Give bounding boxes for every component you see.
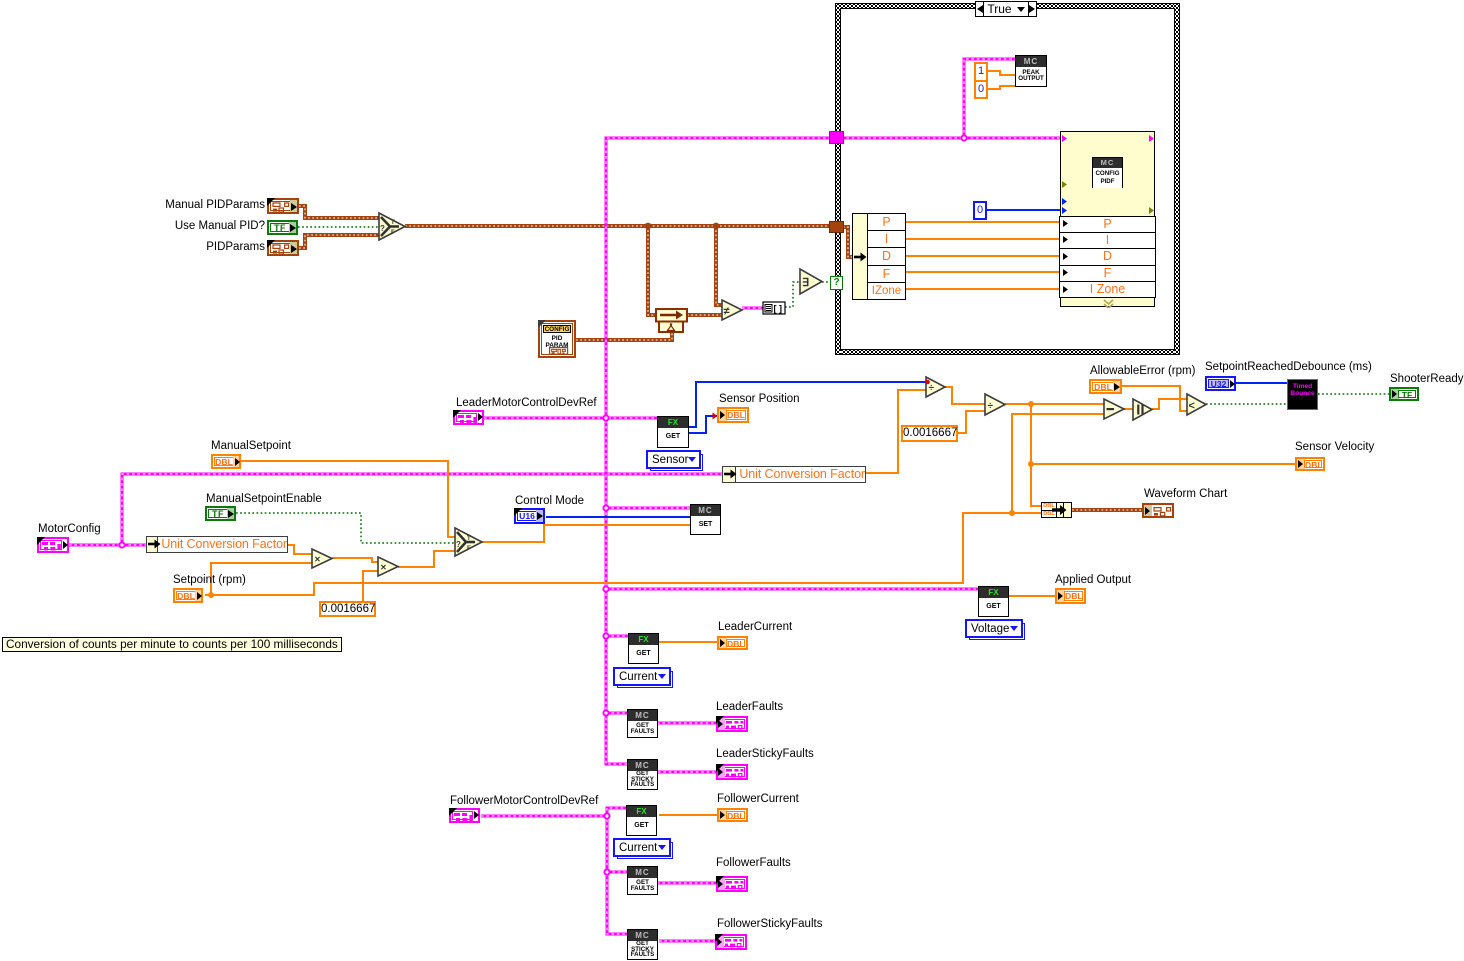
wire: AllowableError to less-than: [1122, 386, 1187, 411]
svg-text:≠: ≠: [724, 306, 730, 318]
wire: 0.0016667 const1 to multiply2: [363, 571, 378, 601]
wire: Follower GET FAULTS output: [657, 882, 717, 885]
wire: velocity down to bundle: [1031, 404, 1042, 506]
refnum terminal FollowerMotorControlDevRef: [449, 808, 480, 823]
multiply node x1: [312, 549, 332, 568]
wire: Leader GET FAULTS output to LeaderFaults: [657, 722, 717, 725]
bundle node for waveform chart: [1041, 502, 1072, 518]
wire: or-array output to case selector: [822, 281, 831, 283]
control terminal AllowableError DBL: [1089, 379, 1122, 394]
indicator FollowerFaults pink cluster: [716, 876, 748, 892]
blue constant 0: [973, 201, 987, 220]
label MotorConfig: [38, 523, 101, 535]
wire: LeaderCurrent FX GET output: [657, 641, 717, 643]
Leader MC GET FAULTS node: [627, 709, 658, 738]
Unit Conversion Factor box 1: [146, 536, 288, 553]
or-array-elements node: [800, 269, 822, 294]
divide node 1: [926, 377, 945, 397]
wire: divide2 output to subtract: [1005, 403, 1104, 405]
indicator LeaderFaults pink cluster: [716, 716, 748, 732]
red coercion dot at divide1: [925, 380, 930, 385]
Applied Output FX GET node: [978, 586, 1009, 617]
row input arrows: [1062, 216, 1070, 306]
indicator ShooterReady TF: [1389, 387, 1419, 401]
label ManualSetpoint: [211, 440, 291, 452]
indicator Sensor Position DBL: [717, 407, 749, 423]
indicator Applied Output DBL: [1055, 588, 1086, 604]
wire: Sensor FX GET to Sensor Position indicator: [689, 416, 717, 433]
svg-text:?: ?: [380, 224, 385, 233]
svg-text:[ ]: [ ]: [774, 304, 783, 314]
label Setpoint (rpm): [173, 574, 246, 586]
junction dots on cluster wire: [645, 223, 652, 230]
numeric constant 0.0016667 #2: [901, 425, 958, 442]
control terminal PIDParams: [267, 240, 299, 256]
wire: multiply2 output to select2 bottom: [398, 551, 455, 567]
control terminal Use Manual PID? (TF): [267, 220, 298, 235]
wire: Timed Bounce output to ShooterReady: [1318, 393, 1389, 395]
indicator Waveform Chart: [1142, 503, 1174, 518]
Follower MC GET FAULTS node: [627, 866, 658, 895]
wire: main leader ref vertical trunk: [606, 138, 831, 764]
wire: Unit Conversion Factor 1 output to multiply1: [288, 545, 312, 554]
label LeaderMotorControlDevRef: [456, 397, 597, 409]
multiply node x2: [378, 557, 398, 576]
label FollowerFaults: [716, 857, 791, 869]
CONFIG PIDF big node in case: [1060, 131, 1155, 307]
feedback node: [656, 309, 687, 332]
MC PEAK OUTPUT node in case: [1015, 55, 1047, 87]
wire: case tunnel to unbundle: [843, 227, 853, 257]
wire: bundle to Waveform Chart: [1072, 508, 1142, 512]
Unit Conversion Factor box 2: [722, 466, 866, 483]
control terminal SetpointReachedDebounce U32: [1205, 376, 1236, 391]
control terminal Manual PIDParams: [267, 198, 299, 214]
indicator FollowerStickyFaults pink cluster: [715, 934, 747, 950]
control terminal ManualSetpointEnable TF: [205, 506, 236, 521]
wire: Unit Conversion Factor 2 output up to divide1: [866, 390, 926, 473]
select node 2: [455, 528, 482, 556]
wire: blue 0 const to CONFIG PIDF: [987, 209, 1061, 211]
wire: inside case - ref to CONFIG PIDF and MC PEAK OUTPUT: [841, 137, 1061, 140]
absolute value node: [1133, 399, 1152, 420]
wire: branch to Leader GET FAULTS: [606, 712, 628, 715]
label PIDParams: [206, 241, 265, 253]
wire: cluster branch down to not-equal node: [716, 226, 722, 305]
svg-text:F: F: [391, 230, 395, 236]
svg-text:∃: ∃: [802, 277, 809, 289]
label Manual PIDParams: [165, 199, 265, 211]
wire: PIDParams cluster to select: [299, 235, 379, 248]
wire: U32 debounce to Timed Bounce: [1235, 382, 1288, 384]
label Sensor Velocity: [1295, 441, 1374, 453]
Timed Bounce express node: [1287, 379, 1318, 410]
svg-text:T: T: [391, 220, 395, 226]
label FollowerCurrent: [717, 793, 799, 805]
label LeaderStickyFaults: [716, 748, 814, 760]
wire: follower branch to FX GET current: [607, 808, 627, 816]
wire: peak output const 0: [988, 86, 1016, 89]
wire: setpoint up to subtract: [1012, 414, 1104, 513]
svg-text:<: <: [1189, 400, 1195, 412]
wire: MotorConfig ref: [69, 544, 146, 547]
wire: Control Mode U16 to MC SET: [546, 516, 691, 518]
wire: less-than output to Timed Bounce: [1206, 403, 1288, 405]
parameter rows: [1059, 216, 1155, 298]
free label Conversion of counts: [2, 637, 342, 652]
wire: cluster branch down to feedback node: [648, 226, 656, 315]
Follower MC GET STICKY FAULTS node: [627, 929, 658, 960]
wire: Use Manual PID? boolean to select: [298, 226, 379, 228]
wire: Manual PIDParams cluster to select: [299, 206, 379, 218]
label AllowableError (rpm): [1090, 365, 1195, 377]
indicator Sensor Velocity DBL: [1295, 457, 1325, 471]
numeric cluster constant 1/0: [974, 62, 988, 99]
wire: 0.0016667 const2 to divide2: [958, 411, 985, 433]
wire: ManualSetpointEnable boolean to select2: [236, 513, 455, 543]
wire: cluster-to-array to or-array-elements: [785, 282, 800, 307]
wire: FollowerCurrent FX GET output: [659, 814, 717, 816]
wire: Sensor Velocity indicator wire: [1031, 463, 1295, 465]
wire: branch to MC SET: [606, 507, 691, 510]
svg-text:T: T: [467, 536, 471, 542]
label SetpointReachedDebounce (ms): [1205, 361, 1372, 373]
wire: Leader GET STICKY FAULTS output: [658, 771, 717, 774]
label Applied Output: [1055, 574, 1131, 586]
svg-text:÷: ÷: [929, 383, 935, 394]
wire: divide1 output to divide2: [945, 387, 985, 404]
wire: Applied Output FX GET to indicator: [1009, 595, 1055, 597]
case selector label True: [975, 1, 1037, 17]
wire: select2 output to MC SET: [482, 525, 691, 542]
wire: MotorConfig ref up and right to Unit Conversion Factor 2: [122, 474, 723, 545]
junction dots on leader trunk: [603, 415, 608, 420]
edge arrows: [1061, 132, 1156, 308]
label Sensor Position: [719, 393, 800, 405]
refnum terminal LeaderMotorControlDevRef: [453, 410, 484, 425]
control terminal Control Mode U16: [514, 508, 545, 524]
less-than node: [1187, 394, 1206, 415]
indicator FollowerCurrent DBL: [717, 808, 748, 822]
select node 1: [379, 213, 405, 240]
CONFIG PID PARAM node: [538, 320, 576, 358]
case structure True frame border: [835, 3, 1180, 9]
svg-text:×: ×: [381, 563, 387, 574]
wire: follower branch to GET FAULTS: [607, 871, 628, 874]
wire: feedback node output to not-equal: [687, 313, 722, 317]
wire: peak output const 1: [988, 71, 1016, 75]
unbundle by name node in case: [852, 213, 906, 300]
svg-text:×: ×: [315, 555, 321, 566]
Leader MC GET STICKY FAULTS node: [627, 759, 658, 790]
wire: CONFIG PID PARAM output to feedback initializer: [576, 333, 672, 340]
wire: subtract to abs: [1124, 408, 1133, 410]
Leader FX GET current node: [628, 633, 659, 664]
svg-text:F: F: [467, 546, 471, 552]
cluster to array node: [763, 302, 785, 314]
brown tunnel on case border: [829, 221, 844, 233]
indicator LeaderStickyFaults pink cluster: [716, 764, 748, 780]
label LeaderFaults: [716, 701, 783, 713]
label LeaderCurrent: [718, 621, 792, 633]
control terminal ManualSetpoint DBL: [211, 454, 241, 469]
control terminal Setpoint DBL: [173, 588, 203, 603]
refnum terminal MotorConfig: [37, 537, 69, 553]
Current dropdown follower: [613, 838, 671, 857]
Follower FX GET current node: [626, 805, 657, 836]
label ManualSetpointEnable: [206, 493, 322, 505]
wire: FollowerMotorControlDevRef trunk: [481, 816, 628, 934]
svg-text:÷: ÷: [988, 401, 994, 412]
wire: not-equal output boolean cluster: [742, 307, 763, 310]
not-equal node: [722, 300, 742, 320]
Voltage dropdown: [965, 619, 1023, 638]
label ShooterReady: [1390, 373, 1464, 385]
label Control Mode: [515, 495, 584, 507]
wire: Sensor FX GET blue output to divide1: [689, 382, 926, 427]
MC SET node: [690, 504, 721, 535]
wire: Setpoint rpm output: [205, 563, 312, 595]
wire: abs to less-than: [1152, 399, 1187, 409]
wire: Follower GET STICKY FAULTS output: [659, 940, 716, 943]
magenta tunnel on case border: [829, 131, 844, 144]
case selector ? terminal: [830, 276, 843, 290]
wires: unbundle rows to CONFIG PIDF rows: [906, 221, 1061, 223]
Sensor FX GET node: [657, 416, 689, 448]
divide node 2: [985, 394, 1005, 415]
Sensor dropdown: [646, 450, 701, 469]
label Use Manual PID?: [175, 220, 265, 232]
case border frame lines: [836, 4, 1180, 355]
label Waveform Chart: [1144, 488, 1227, 500]
wire: branch to Applied Output FX GET: [606, 588, 979, 591]
wire: LeaderMotorControlDevRef to Sensor FX GET: [484, 417, 658, 420]
numeric constant 0.0016667 #1: [319, 601, 376, 617]
MC CONFIG PIDF icon: [1092, 157, 1123, 188]
indicator LeaderCurrent DBL: [717, 636, 748, 650]
wire: select output cluster to case tunnel: [405, 224, 831, 228]
wire: branch to LeaderCurrent FX GET: [606, 635, 629, 638]
wire: Setpoint rpm long run to compare chain: [211, 513, 1041, 595]
label FollowerMotorControlDevRef: [450, 795, 598, 807]
red coercion arrow at Sensor Position: [713, 413, 718, 420]
Current dropdown leader: [613, 667, 671, 686]
svg-text:?: ?: [456, 540, 461, 549]
wire: ManualSetpoint to select2 top: [240, 461, 455, 537]
label FollowerStickyFaults: [717, 918, 822, 930]
wire: multiply1 output to multiply2: [332, 558, 378, 562]
subtract node: [1104, 399, 1124, 419]
